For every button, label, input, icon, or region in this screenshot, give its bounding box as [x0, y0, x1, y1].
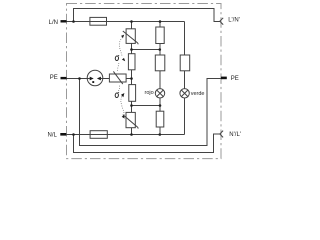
dashed link theta2 to PE-row disconnector box	[119, 85, 120, 91]
lamp verde	[180, 89, 189, 98]
wire column C top	[184, 22, 186, 56]
svg-text:PE: PE	[50, 75, 58, 81]
fuse F1	[90, 17, 107, 25]
terminal bar N/L	[60, 133, 66, 136]
dashed actuation curve theta1: varistor V1 to disconnector D1	[119, 38, 122, 57]
svg-text:L'/N': L'/N'	[228, 17, 240, 23]
output chevron N'/L'	[220, 131, 223, 138]
disconnector D2	[129, 85, 136, 102]
fuse F2	[90, 131, 107, 139]
wire top rail L/N	[67, 21, 185, 23]
wire PE bypass to right PE	[80, 79, 221, 146]
terminal bar PE left	[61, 77, 67, 79]
disconnector box on PE row	[109, 71, 126, 84]
thermal disconnect theta 2	[115, 85, 125, 119]
dashed actuation curve theta2: disconnector D2 to varistor V2	[121, 97, 124, 116]
svg-text:verde: verde	[191, 91, 205, 97]
junction dots	[72, 20, 161, 136]
thermal disconnect theta 1	[115, 35, 125, 72]
wire rail A-B lamp row	[132, 105, 161, 107]
terminal bar PE right	[221, 77, 227, 80]
output chevron L'/N'	[220, 18, 223, 25]
wire bottom rail N/L	[67, 134, 185, 136]
wire rail A-B upper	[132, 49, 160, 51]
svg-text:N'/L': N'/L'	[229, 132, 241, 138]
varistor V2	[123, 112, 138, 128]
svg-text:rojo: rojo	[145, 90, 154, 96]
varistor V1	[123, 29, 138, 45]
terminal bar L/N	[61, 20, 67, 22]
wire column A segments	[131, 22, 133, 135]
dashed link theta1 to PE-row disconnector box	[117, 63, 119, 71]
lamp rojo	[155, 89, 164, 98]
wire column B segments	[159, 22, 161, 135]
resistor R2	[155, 55, 165, 71]
svg-text:PE: PE	[231, 76, 239, 82]
svg-text:L/N: L/N	[49, 20, 58, 26]
spark gap arrows	[90, 77, 101, 83]
spark gap (gas discharge tube)	[87, 70, 103, 86]
disconnector D1	[128, 54, 135, 70]
enclosure dash-dot border	[67, 4, 222, 159]
resistor R4	[180, 55, 190, 71]
resistor R1	[156, 27, 164, 44]
wire N/L bypass to N'/L'	[74, 134, 220, 153]
svg-text:N/L: N/L	[48, 132, 58, 138]
resistor R3	[156, 111, 164, 127]
wire column C	[184, 71, 186, 135]
wire PE row	[67, 78, 132, 80]
wire bypass rail top (L/N to L'/N')	[74, 9, 220, 22]
